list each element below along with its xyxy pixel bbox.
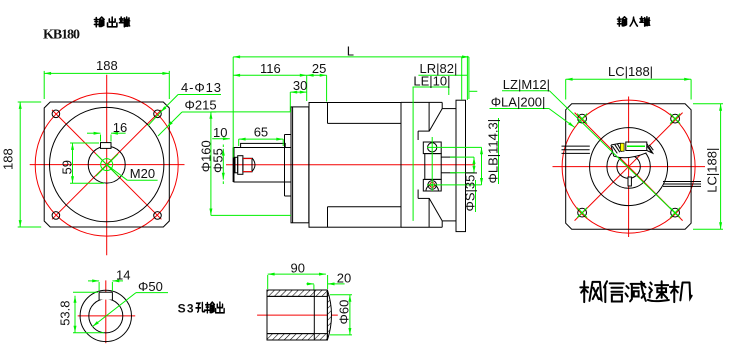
svg-text:25: 25 xyxy=(312,61,326,76)
svg-text:116: 116 xyxy=(260,61,281,76)
svg-text:M20: M20 xyxy=(130,166,155,181)
svg-text:65: 65 xyxy=(254,125,268,140)
svg-text:LZ|M12|: LZ|M12| xyxy=(503,77,550,92)
svg-text:ΦS|35|: ΦS|35| xyxy=(463,171,478,211)
svg-text:59: 59 xyxy=(59,160,74,174)
svg-text:Φ60: Φ60 xyxy=(337,300,352,325)
svg-text:188: 188 xyxy=(1,148,16,170)
svg-text:Φ160: Φ160 xyxy=(198,140,213,172)
svg-text:4-Φ13: 4-Φ13 xyxy=(181,80,221,95)
svg-text:L: L xyxy=(347,43,354,58)
svg-text:30: 30 xyxy=(293,78,307,93)
svg-text:LE|10|: LE|10| xyxy=(413,74,450,89)
svg-text:188: 188 xyxy=(96,58,118,73)
svg-text:90: 90 xyxy=(291,260,305,275)
svg-text:14: 14 xyxy=(116,268,130,283)
svg-text:ΦLB|114.3|: ΦLB|114.3| xyxy=(486,119,501,184)
svg-text:16: 16 xyxy=(113,120,127,135)
svg-text:KB180: KB180 xyxy=(43,28,80,43)
svg-text:20: 20 xyxy=(337,271,351,286)
svg-text:10: 10 xyxy=(213,125,227,140)
svg-text:Φ215: Φ215 xyxy=(185,98,217,113)
svg-text:LC|188|: LC|188| xyxy=(705,148,720,193)
svg-text:LC|188|: LC|188| xyxy=(608,64,653,79)
svg-text:Φ50: Φ50 xyxy=(138,279,163,294)
svg-text:53.8: 53.8 xyxy=(58,300,73,325)
svg-text:ΦLA|200|: ΦLA|200| xyxy=(491,95,546,110)
